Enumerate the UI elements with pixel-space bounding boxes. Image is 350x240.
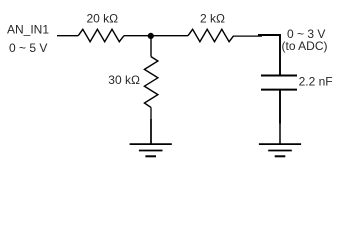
wire R3 to ground upper segment <box>150 107 152 119</box>
capacitor 2.2 nF bottom plate <box>261 89 297 91</box>
ground left <box>130 144 172 156</box>
wire R2 to node <box>234 35 262 37</box>
wire node to output corner down to capacitor <box>258 35 280 76</box>
wire input to R1 <box>57 35 78 37</box>
wire capacitor to ground upper segment <box>279 90 281 124</box>
junction node dot <box>148 33 154 39</box>
wire R1 to R2 through junction <box>124 35 188 37</box>
resistor 20 kΩ <box>78 29 124 41</box>
resistor 30 kΩ <box>144 57 158 108</box>
svg-text:2.2 nF: 2.2 nF <box>299 75 333 89</box>
svg-text:2 kΩ: 2 kΩ <box>200 12 225 26</box>
svg-text:0 ~ 5 V: 0 ~ 5 V <box>9 41 47 55</box>
wire junction to R3 <box>150 36 152 57</box>
resistor 2 kΩ <box>188 29 234 41</box>
wire R3 to ground lower segment <box>150 119 152 144</box>
svg-text:30 kΩ: 30 kΩ <box>108 73 140 87</box>
capacitor 2.2 nF top plate <box>261 75 297 77</box>
svg-text:(to ADC): (to ADC) <box>282 39 328 53</box>
svg-text:20 kΩ: 20 kΩ <box>87 12 119 26</box>
wire capacitor to ground lower segment <box>279 124 281 145</box>
ground right <box>259 144 301 156</box>
svg-text:AN_IN1: AN_IN1 <box>7 23 49 37</box>
